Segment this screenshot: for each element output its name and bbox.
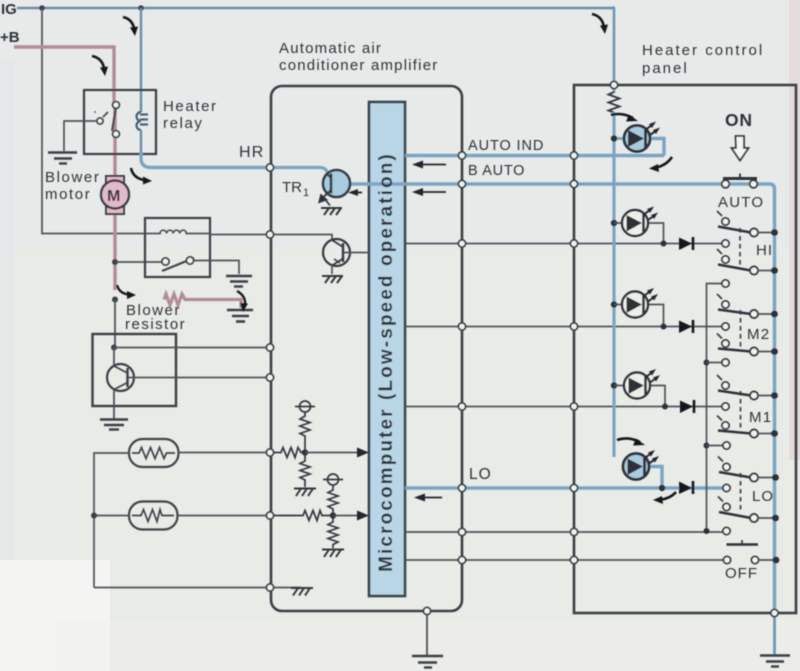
- junction common to M1: [704, 360, 723, 366]
- label AUTO IND: [468, 138, 544, 154]
- wire bus to panel ground: [773, 613, 776, 655]
- supply terminal divider A: [295, 401, 315, 412]
- node panel left LO: [570, 484, 577, 491]
- svg-text:resistor: resistor: [125, 316, 186, 333]
- wire coil line to amplifier: [210, 234, 270, 236]
- node amp right M1: [458, 403, 465, 410]
- junction divider B: [330, 512, 336, 518]
- LED AUTO indicator (lit): [611, 122, 664, 156]
- node amp left collector row: [266, 344, 273, 351]
- switch AUTO: [722, 174, 758, 188]
- current arrow on +B drop: [92, 56, 108, 76]
- pull-up resistor divider A: [300, 412, 310, 453]
- label HR: [239, 144, 265, 161]
- svg-text:panel: panel: [642, 60, 689, 77]
- svg-text:Automatic air: Automatic air: [279, 40, 382, 57]
- diode M2: [679, 320, 693, 333]
- node panel left AUTO IND: [570, 152, 577, 159]
- svg-text:M: M: [107, 188, 120, 205]
- svg-text:M1: M1: [749, 409, 772, 426]
- label Heater relay: [163, 98, 218, 132]
- wire sensor1 left: [94, 453, 129, 588]
- label AUTO: [718, 194, 764, 211]
- chassis ground divider B: [322, 550, 344, 558]
- switch cluster M1: [717, 359, 778, 438]
- svg-text:+B: +B: [0, 29, 20, 46]
- current arrow at resistor ground: [237, 291, 248, 312]
- chassis ground TR1: [321, 208, 342, 215]
- svg-text:1: 1: [303, 187, 309, 199]
- node panel left OFF: [570, 556, 577, 563]
- wire sensor return to amplifier: [94, 587, 270, 589]
- supply terminal divider B: [323, 474, 343, 485]
- signal arrow AUTO IND: [412, 161, 446, 169]
- node panel left HI: [570, 240, 577, 247]
- junction on IG rail at x141: [138, 5, 144, 11]
- wire HI row microcomputer to panel switch: [405, 243, 725, 245]
- node IG label: [1, 1, 17, 18]
- LED LO (lit): [623, 450, 662, 488]
- transistor TR1: [270, 168, 350, 206]
- svg-text:Heater control: Heater control: [642, 42, 764, 59]
- node panel left M1: [570, 403, 577, 410]
- wire relay contact to ground stub: [64, 121, 97, 151]
- wire B AUTO (blue) TR1 base to panel: [349, 182, 762, 185]
- wire collector node to amplifier: [114, 347, 270, 349]
- junction divider A: [302, 449, 308, 455]
- transistor Q2 relay driver: [270, 235, 369, 275]
- junction blower motor negative: [112, 259, 118, 265]
- chassis ground sensor return: [270, 588, 313, 596]
- node amp left sensor2: [266, 512, 273, 519]
- label LO: [469, 466, 492, 483]
- diode LO: [679, 481, 693, 494]
- wire heater relay coil to HR line: [140, 130, 142, 154]
- node amp right AUTO IND: [458, 152, 465, 159]
- wire +B feed (pink): [14, 47, 114, 104]
- label LO switch: [752, 488, 774, 505]
- svg-text:Heater: Heater: [163, 98, 218, 115]
- blower motor M1: [101, 176, 129, 214]
- junction in transistor box: [111, 345, 117, 351]
- power transistor box: [93, 334, 177, 406]
- wire AUTO IND (blue) microcomputer to panel: [405, 154, 664, 157]
- svg-text:HR: HR: [239, 144, 265, 161]
- wire HR (blue) relay to amplifier: [141, 152, 270, 168]
- junction M2 diode row: [661, 324, 667, 330]
- switch cluster LO: [718, 442, 779, 522]
- svg-text:M2: M2: [747, 326, 770, 343]
- svg-text:AUTO: AUTO: [718, 194, 764, 211]
- label ON: [725, 110, 753, 130]
- contact hold row: [723, 527, 730, 534]
- current arrow above AUTO LED: [611, 114, 638, 122]
- diode M1: [680, 400, 694, 413]
- label M1: [749, 409, 772, 426]
- node amp right HI: [458, 240, 465, 247]
- svg-text:LO: LO: [752, 488, 774, 505]
- node amp bottom ground: [423, 607, 430, 614]
- signal arrow B AUTO: [412, 188, 446, 196]
- ground for relay contact: [48, 153, 77, 164]
- signal arrow LO: [414, 494, 442, 502]
- chassis ground divider A: [294, 489, 316, 497]
- svg-text:LO: LO: [469, 466, 492, 483]
- resistor on panel feed: [609, 92, 620, 113]
- pull-up resistor divider B: [328, 485, 338, 516]
- label OFF: [725, 565, 758, 582]
- switch cluster M2: [717, 280, 778, 356]
- wire IG drop to heater relay coil: [140, 8, 142, 112]
- wire down to power transistor box: [114, 300, 116, 348]
- LED M2: [611, 288, 664, 327]
- wire M2 row microcomputer to panel switch: [405, 326, 725, 328]
- svg-text:relay: relay: [163, 115, 204, 132]
- svg-text:OFF: OFF: [725, 565, 758, 582]
- microcomputer U1 label: [376, 152, 397, 572]
- heater relay coil L1: [137, 112, 149, 130]
- LED HI: [611, 207, 664, 244]
- blower relay contact: [162, 257, 194, 271]
- node panel left M2: [570, 323, 577, 330]
- current arrow on IG drop to panel: [592, 14, 608, 34]
- wire divider B to microcomputer with arrow: [333, 511, 369, 521]
- heater relay NC contact: [94, 111, 108, 124]
- junction M1 diode row: [662, 404, 668, 410]
- current arrow below LO diode: [653, 492, 676, 504]
- ground for blower relay contact: [226, 276, 252, 287]
- junction HI diode row: [661, 241, 667, 247]
- pull-down resistor divider A: [300, 453, 310, 488]
- ON arrow: [732, 136, 749, 161]
- resistor: blower resistor element (pink): [164, 294, 241, 308]
- junction LO diode row: [659, 485, 665, 491]
- resistor divider B series element: [270, 511, 333, 521]
- wire M1 row microcomputer to panel switch: [405, 406, 725, 408]
- svg-text:HI: HI: [756, 242, 773, 259]
- ground below transistor box: [100, 420, 128, 430]
- junction common to hold row: [704, 528, 710, 534]
- junction common to LO: [704, 443, 724, 449]
- wire sensor2 to amplifier: [178, 515, 271, 517]
- ground below blower resistor: [227, 310, 253, 322]
- node amp right M2: [458, 323, 465, 330]
- node amp left sensor1: [266, 449, 273, 456]
- wire base to amplifier: [128, 377, 270, 379]
- svg-text:ON: ON: [725, 110, 753, 130]
- power transistor Q1: [107, 348, 134, 420]
- amplifier box U2: [271, 86, 462, 611]
- wire IG rail: [17, 7, 614, 9]
- wire right bus (blue): [762, 184, 775, 613]
- label Heater control panel: [642, 42, 764, 77]
- in-car temperature sensor: [129, 439, 179, 467]
- svg-text:TR: TR: [282, 179, 302, 196]
- switch OFF: [723, 540, 779, 564]
- wire IG drop into panel (blue): [613, 7, 615, 93]
- node panel top: [610, 81, 617, 88]
- node amp right OFF: [458, 556, 465, 563]
- svg-text:AUTO IND: AUTO IND: [468, 138, 544, 154]
- node amp right LO: [458, 484, 465, 491]
- node amp left base row: [266, 374, 273, 381]
- node panel left hold: [570, 528, 577, 535]
- current arrow below AUTO LED: [649, 157, 672, 172]
- LED M1: [611, 369, 665, 407]
- svg-text:Blower: Blower: [45, 169, 100, 186]
- svg-text:Microcomputer (Low-speed opera: Microcomputer (Low-speed operation): [376, 152, 397, 572]
- wire relay contact to ground: [194, 261, 239, 275]
- node panel left B AUTO: [570, 180, 577, 187]
- blower relay box: [145, 218, 210, 277]
- diode HI: [679, 237, 693, 250]
- node amp left coil row: [266, 231, 273, 238]
- node panel bottom ground: [771, 609, 778, 616]
- wire divider A to microcomputer with arrow: [305, 448, 369, 458]
- label HI: [756, 242, 773, 259]
- wire amplifier ground stub: [426, 611, 428, 655]
- current arrow at blower resistor: [117, 285, 136, 299]
- wire sensor2 left with junction: [91, 513, 129, 519]
- node amp left HR: [266, 164, 273, 171]
- signal arrow into TR1: [348, 189, 362, 196]
- wire relay contact to motor (pink): [113, 106, 116, 178]
- wire motor junction to relay contact: [115, 261, 163, 263]
- label B AUTO: [468, 163, 525, 179]
- node amp right hold: [458, 528, 465, 535]
- svg-text:motor: motor: [45, 186, 91, 203]
- current arrow on IG drop to relay: [123, 17, 138, 36]
- svg-text:B AUTO: B AUTO: [468, 163, 525, 179]
- svg-text:IG: IG: [1, 1, 17, 18]
- node +B label: [0, 29, 20, 46]
- switch cluster HI: [717, 211, 778, 275]
- wire panel LED bus (blue): [612, 112, 615, 457]
- label Blower resistor: [125, 302, 186, 333]
- wire LO (blue) microcomputer to panel: [405, 486, 726, 489]
- water temperature sensor: [129, 502, 178, 530]
- junction at blower resistor branch: [112, 297, 118, 303]
- blower relay coil L2: [145, 230, 210, 233]
- label Automatic air conditioner amplifier: [279, 40, 438, 74]
- wire IG to blower-relay coil (left drop): [42, 8, 145, 234]
- heater relay box: [84, 90, 156, 154]
- chassis ground Q2: [322, 276, 343, 283]
- wire LO-hold row microcomputer to panel: [405, 531, 726, 533]
- label M2: [747, 326, 770, 343]
- svg-text:conditioner amplifier: conditioner amplifier: [279, 57, 438, 74]
- wire common line of speed switches: [707, 284, 723, 532]
- heater relay contact arm: [112, 102, 119, 138]
- ground heater panel: [760, 656, 790, 667]
- current arrow above LO LED: [617, 438, 645, 445]
- node amp left return: [266, 584, 273, 591]
- ground amplifier: [412, 656, 443, 668]
- pull-down resistor divider B: [328, 516, 338, 549]
- wire sensor1 to amplifier: [179, 452, 271, 454]
- current arrow on HR wire: [131, 168, 152, 185]
- label Blower motor: [45, 169, 100, 203]
- wire motor to junctions (pink): [113, 211, 116, 290]
- microcomputer U1 body: [369, 102, 405, 596]
- wire OFF row microcomputer to panel: [405, 559, 727, 561]
- label TR1: [282, 179, 309, 199]
- junction on IG rail at x42: [39, 5, 45, 11]
- heater control panel box: [574, 85, 796, 613]
- node amp right B AUTO: [458, 180, 465, 187]
- resistor divider A series element: [270, 448, 305, 458]
